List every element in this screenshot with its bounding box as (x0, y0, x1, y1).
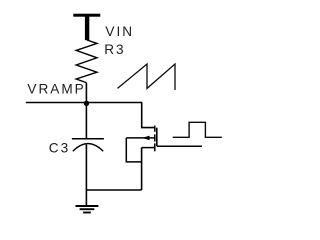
wire VRAMP horizontal (26, 102, 142, 104)
resistor R3 (76, 40, 97, 83)
power symbol VIN (73, 14, 100, 41)
svg-text:VRAMP: VRAMP (27, 81, 85, 96)
wire capacitor to ground (85, 145, 87, 206)
pulse waveform icon (173, 122, 222, 137)
wire node to mosfet drain (142, 103, 155, 128)
ground (76, 206, 99, 213)
wire resistor bottom to node (85, 83, 87, 103)
node VRAMP junction (84, 101, 89, 106)
capacitor C3 (72, 139, 104, 152)
sawtooth waveform icon (118, 64, 176, 90)
n-channel mosfet Q1 (126, 126, 157, 152)
wire bottom to mosfet source (86, 189, 141, 191)
svg-text:VIN: VIN (105, 24, 134, 39)
wire mosfet gate lead (157, 145, 202, 147)
svg-text:R3: R3 (104, 42, 125, 57)
wire node to capacitor (85, 102, 87, 138)
svg-text:C3: C3 (49, 140, 70, 155)
wire mosfet source down (141, 148, 143, 190)
wire mosfet body to source (126, 138, 141, 162)
